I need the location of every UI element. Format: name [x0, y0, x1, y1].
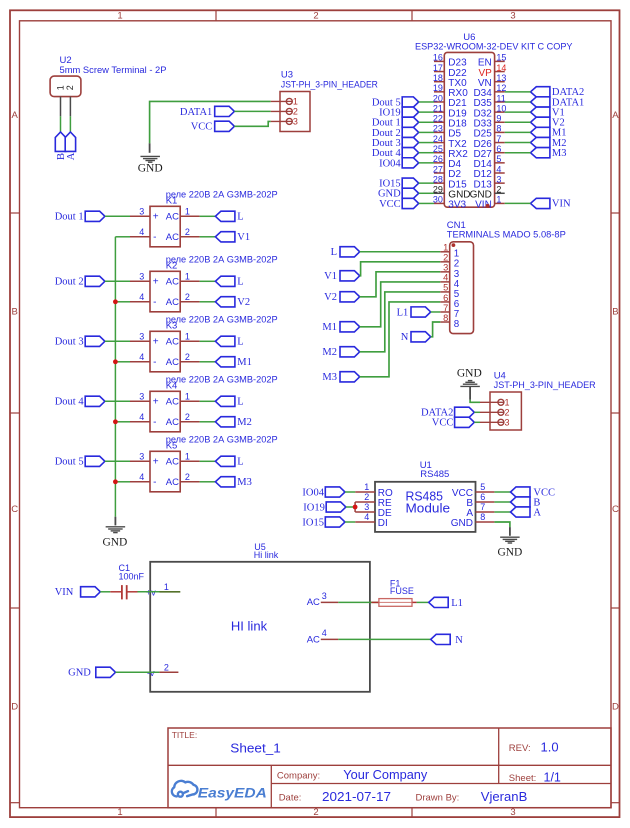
wire U2 pin2 to port A — [69, 116, 71, 132]
svg-text:VCC: VCC — [379, 199, 401, 210]
svg-text:3: 3 — [322, 591, 327, 601]
svg-text:1: 1 — [505, 398, 510, 408]
svg-text:M2: M2 — [322, 347, 337, 358]
svg-text:Company:: Company: — [277, 771, 320, 782]
wire U6 pin 6 to M3 — [505, 152, 531, 154]
netport DATA1 (U6 pin 11) — [531, 97, 550, 107]
netport VCC (U6 pin 30) — [402, 198, 419, 208]
svg-text:C: C — [11, 504, 18, 515]
title block — [168, 728, 611, 808]
U6 pin 15 EN — [495, 60, 505, 62]
svg-text:Sheet_1: Sheet_1 — [230, 741, 280, 756]
U6 pin 29 GND — [434, 192, 444, 194]
svg-text:Dout 2: Dout 2 — [55, 277, 84, 288]
svg-text:AC: AC — [166, 477, 179, 488]
U6 pin 25 RX2 — [434, 152, 444, 154]
svg-text:IO04: IO04 — [302, 487, 324, 498]
svg-text:K3: K3 — [166, 321, 178, 332]
svg-text:21: 21 — [433, 103, 443, 113]
wire Dout 3 to K3 pin 3 — [105, 340, 130, 342]
netport V1 (U6 pin 10) — [531, 107, 550, 117]
svg-text:AC: AC — [166, 457, 179, 468]
wire GND to U5 pin2 — [116, 671, 160, 673]
svg-text:11: 11 — [496, 93, 505, 103]
wire K5 pin 2 to M3 — [200, 481, 216, 483]
CN1 pin 1 — [440, 251, 449, 253]
svg-text:Your Company: Your Company — [343, 768, 428, 782]
wire GND to U4 pin1 — [470, 400, 480, 403]
svg-text:A: A — [612, 110, 619, 121]
K4 pin 2 — [180, 421, 199, 423]
svg-text:IO19: IO19 — [303, 502, 325, 513]
svg-text:AC: AC — [307, 634, 320, 645]
svg-text:3: 3 — [139, 392, 144, 402]
K3 pin 4 — [130, 361, 150, 363]
svg-text:AC: AC — [166, 232, 179, 243]
K1 pin 1 — [180, 215, 199, 217]
svg-text:15: 15 — [496, 53, 506, 63]
svg-text:A: A — [66, 152, 77, 160]
svg-text:23: 23 — [433, 124, 443, 134]
wire IO04 to U1 pin1 — [345, 491, 355, 493]
netport Dout 3 (K3) — [85, 336, 105, 346]
svg-text:5: 5 — [480, 482, 485, 492]
wire U1 pin8 to GND — [494, 522, 510, 527]
U6 pin 8 D25 — [495, 131, 505, 133]
netport L (K2 pin 1) — [215, 276, 235, 286]
svg-text:29: 29 — [433, 185, 443, 195]
netport L (CN1 pin 1) — [340, 247, 360, 257]
svg-text:K1: K1 — [166, 196, 178, 207]
junction relay bus at pin 4 — [113, 299, 118, 304]
U1 pin 7 A — [476, 511, 495, 513]
svg-text:C: C — [612, 504, 619, 515]
wire L1 to CN1 pin 7 — [431, 311, 441, 313]
wire U6 pin 1 to VIN — [505, 202, 531, 204]
svg-text:1: 1 — [117, 807, 122, 818]
U6 pin 1 VIN — [495, 202, 505, 204]
svg-text:2: 2 — [313, 807, 318, 818]
svg-text:HI link: HI link — [231, 620, 268, 634]
svg-text:JST-PH_3-PIN_HEADER: JST-PH_3-PIN_HEADER — [281, 79, 378, 89]
U6 pin 30 3V3 — [434, 202, 444, 204]
wire relay GND bus — [114, 237, 116, 517]
svg-text:8: 8 — [480, 512, 485, 522]
U6 pin1 marker dot — [486, 204, 490, 208]
svg-text:30: 30 — [433, 195, 443, 205]
K3 pin 1 — [180, 340, 199, 342]
netport V2 (CN1 pin 3) — [340, 292, 360, 302]
svg-text:ESP32-WROOM-32-DEV KIT C COPY: ESP32-WROOM-32-DEV KIT C COPY — [415, 42, 573, 53]
svg-text:+: + — [153, 397, 159, 408]
junction relay bus at pin 4 — [113, 479, 118, 484]
svg-text:3: 3 — [443, 263, 448, 273]
netport V2 (U6 pin 9) — [531, 117, 550, 127]
svg-text:RS485: RS485 — [420, 469, 449, 480]
U6 pin 14 VP — [495, 71, 505, 73]
svg-text:100nF: 100nF — [119, 571, 145, 581]
U1 pin 8 GND — [476, 521, 495, 523]
svg-text:6: 6 — [496, 144, 501, 154]
svg-text:AC: AC — [166, 397, 179, 408]
wire U6 pin 9 to V2 — [505, 121, 531, 123]
wire K4 pin 2 to M2 — [200, 421, 216, 423]
U6 pin 6 D27 — [495, 152, 505, 154]
svg-text:VIN: VIN — [55, 587, 74, 598]
svg-text:VjeranB: VjeranB — [481, 790, 528, 804]
svg-text:3: 3 — [505, 418, 510, 428]
svg-text:1.0: 1.0 — [541, 740, 559, 755]
svg-text:19: 19 — [433, 83, 443, 93]
svg-text:реле 220В 2А G3MB-202P: реле 220В 2А G3MB-202P — [166, 314, 278, 325]
svg-text:L: L — [237, 277, 243, 288]
netport V1 (CN1 pin 2) — [340, 271, 360, 281]
netport Dout 1 (K1) — [85, 211, 105, 221]
svg-text:DI: DI — [378, 518, 388, 529]
wire N to CN1 pin 8 — [431, 322, 441, 337]
wire DATA1 to U3 pin2 — [234, 110, 270, 112]
netport VCC (U1 pin 5) — [511, 487, 531, 497]
svg-text:1: 1 — [185, 392, 190, 402]
svg-text:4: 4 — [139, 227, 144, 237]
svg-text:1: 1 — [185, 272, 190, 282]
svg-text:1: 1 — [443, 243, 448, 253]
svg-text:A: A — [12, 110, 19, 121]
svg-text:1: 1 — [185, 332, 190, 342]
U3 pin 3 — [271, 120, 293, 122]
netport IO04 (U6 pin 26) — [402, 158, 419, 168]
svg-text:13: 13 — [496, 73, 506, 83]
wire VCC to U4 pin3 — [474, 421, 480, 423]
svg-text:GND: GND — [497, 547, 522, 559]
svg-text:Dout 1: Dout 1 — [55, 212, 84, 223]
U1 pin 3 DE — [355, 511, 375, 513]
U4 pin 2 — [480, 411, 504, 413]
svg-text:-: - — [153, 357, 156, 368]
svg-text:Dout 4: Dout 4 — [55, 397, 85, 408]
wire U6 pin 11 to DATA1 — [505, 101, 531, 103]
K4 pin 3 — [130, 400, 150, 402]
svg-text:L: L — [237, 457, 243, 468]
svg-text:6: 6 — [443, 293, 448, 303]
svg-text:Dout 3: Dout 3 — [55, 337, 84, 348]
netport Dout 1 (U6 pin 22) — [402, 117, 419, 127]
svg-text:1/1: 1/1 — [544, 770, 561, 784]
wire Dout 3 to U6 pin 24 — [419, 142, 434, 144]
netport DATA2 (U6 pin 12) — [531, 87, 550, 97]
svg-text:AC: AC — [166, 357, 179, 368]
svg-text:M1: M1 — [237, 357, 252, 368]
svg-text:3: 3 — [139, 332, 144, 342]
svg-text:24: 24 — [433, 134, 443, 144]
netport Dout 5 (K5) — [85, 456, 105, 466]
U6 pin 20 D21 — [434, 101, 444, 103]
netport DATA1 — [215, 106, 235, 116]
svg-text:3V3: 3V3 — [448, 200, 466, 211]
svg-text:3: 3 — [139, 272, 144, 282]
svg-text:14: 14 — [496, 63, 506, 73]
svg-text:Hi link: Hi link — [254, 550, 279, 560]
svg-text:DATA1: DATA1 — [180, 107, 212, 118]
U6 pin 10 D32 — [495, 111, 505, 113]
ground GND (U1) — [509, 527, 511, 536]
svg-text:L: L — [331, 247, 337, 258]
svg-text:+: + — [153, 337, 159, 348]
svg-text:3: 3 — [510, 807, 515, 818]
svg-text:1: 1 — [117, 11, 122, 22]
netport L (K5 pin 1) — [215, 456, 235, 466]
netport VCC (U3) — [215, 121, 235, 131]
svg-text:+: + — [153, 277, 159, 288]
svg-text:18: 18 — [433, 73, 443, 83]
wire Dout 4 to K4 pin 3 — [105, 400, 130, 402]
K3 pin 2 — [180, 361, 199, 363]
wire V1 to CN1 pin 2 — [360, 262, 441, 276]
svg-text:2: 2 — [185, 227, 190, 237]
K5 pin 3 — [130, 460, 150, 462]
wire K4 pin 1 to L — [200, 400, 216, 402]
svg-text:3: 3 — [496, 174, 501, 184]
svg-text:AC: AC — [166, 297, 179, 308]
netport VIN (U5) — [81, 587, 101, 597]
U1 pin 2 RE — [355, 501, 375, 503]
netport M3 (CN1 pin 6) — [340, 372, 360, 382]
svg-text:+: + — [153, 457, 159, 468]
svg-text:4: 4 — [364, 512, 369, 522]
K5 pin 1 — [180, 460, 199, 462]
U2 pin 1 lead — [60, 97, 62, 117]
svg-text:7: 7 — [496, 134, 501, 144]
wire K1 pin 4 to GND bus — [115, 236, 130, 238]
EasyEDA logo — [172, 781, 198, 797]
svg-text:AC: AC — [166, 337, 179, 348]
wire K5 pin 4 to GND bus — [115, 481, 130, 483]
svg-text:Sheet:: Sheet: — [509, 773, 536, 784]
netport VIN (U6 pin 1) — [531, 198, 550, 208]
svg-text:реле 220В 2А G3MB-202P: реле 220В 2А G3MB-202P — [166, 434, 278, 445]
svg-text:M2: M2 — [237, 417, 252, 428]
svg-text:AC: AC — [307, 597, 320, 608]
svg-text:IO04: IO04 — [379, 158, 401, 169]
svg-text:K5: K5 — [166, 441, 178, 452]
svg-text:TITLE:: TITLE: — [172, 730, 198, 740]
svg-text:L1: L1 — [397, 307, 409, 318]
svg-text:M3: M3 — [237, 477, 252, 488]
U6 pin 19 RX0 — [434, 91, 444, 93]
svg-text:K4: K4 — [166, 381, 178, 392]
U6 pin 17 D22 — [434, 71, 444, 73]
svg-text:3: 3 — [510, 11, 515, 22]
svg-text:2: 2 — [293, 107, 298, 117]
wire K2 pin 1 to L — [200, 280, 216, 282]
wire K5 pin 1 to L — [200, 460, 216, 462]
svg-text:GND: GND — [457, 368, 482, 380]
svg-text:1: 1 — [185, 207, 190, 217]
svg-text:2: 2 — [185, 292, 190, 302]
netport GND (U5) — [96, 667, 116, 677]
netport N (U5) — [431, 634, 451, 644]
svg-text:D: D — [11, 702, 18, 713]
svg-text:5mm Screw Terminal - 2P: 5mm Screw Terminal - 2P — [60, 65, 167, 76]
netport GND (U6 pin 29) — [402, 188, 419, 198]
svg-text:2: 2 — [185, 352, 190, 362]
svg-text:D: D — [612, 702, 619, 713]
netport V2 (K2 pin 2) — [215, 297, 235, 307]
K1 pin 2 — [180, 236, 199, 238]
svg-text:L: L — [237, 212, 243, 223]
U6 pin 9 D33 — [495, 121, 505, 123]
U6 pin 7 D26 — [495, 142, 505, 144]
svg-text:VIN: VIN — [552, 199, 571, 210]
wire U2 pin1 to port B — [60, 116, 62, 132]
wire IO04 to U6 pin 26 — [419, 162, 434, 164]
wire GND to U6 pin 29 — [419, 192, 434, 194]
svg-text:1: 1 — [293, 97, 298, 107]
svg-text:4: 4 — [139, 352, 144, 362]
wire DATA2 to U4 pin2 — [474, 411, 480, 413]
wire U5 pin3 to F1 — [338, 601, 379, 603]
K2 pin 3 — [130, 280, 150, 282]
netport Dout 2 (K2) — [85, 276, 105, 286]
svg-text:9: 9 — [496, 114, 501, 124]
netport Dout 3 (U6 pin 24) — [402, 137, 419, 147]
wire L to CN1 pin 1 — [360, 251, 441, 253]
wire C1 to U5 pin1 — [138, 591, 160, 593]
wire IO15 to U1 pin4 — [345, 521, 355, 523]
wire U1 pin 7 to A — [494, 511, 510, 513]
svg-text:EasyEDA: EasyEDA — [198, 786, 267, 801]
svg-text:3: 3 — [139, 207, 144, 217]
wire Dout 1 to U6 pin 22 — [419, 121, 434, 123]
svg-text:GND: GND — [68, 668, 91, 679]
wire U6 pin 8 to M1 — [505, 131, 531, 133]
U6 pin 12 D34 — [495, 91, 505, 93]
svg-text:IO15: IO15 — [302, 517, 324, 528]
netport M3 (U6 pin 6) — [531, 148, 550, 158]
wire V2 to CN1 pin 3 — [360, 272, 441, 297]
netport Dout 2 (U6 pin 23) — [402, 127, 419, 137]
CN1 pin 4 — [440, 281, 449, 283]
U1 pin 4 DI — [355, 521, 375, 523]
svg-text:Dout 5: Dout 5 — [55, 457, 84, 468]
svg-text:реле 220В 2А G3MB-202P: реле 220В 2А G3MB-202P — [166, 189, 278, 200]
K2 pin 1 — [180, 280, 199, 282]
svg-text:2: 2 — [496, 185, 501, 195]
ground GND (relay bus) — [114, 517, 116, 526]
svg-text:1: 1 — [185, 452, 190, 462]
svg-text:L: L — [237, 397, 243, 408]
netport M1 (CN1 pin 4) — [340, 322, 360, 332]
U6 pin 13 VN — [495, 81, 505, 83]
svg-text:+v: +v — [146, 588, 156, 598]
svg-text:17: 17 — [433, 63, 443, 73]
svg-text:GND: GND — [451, 518, 473, 529]
svg-text:5: 5 — [443, 283, 448, 293]
svg-text:8: 8 — [443, 313, 448, 323]
svg-text:AC: AC — [166, 212, 179, 223]
netport Dout 4 (K4) — [85, 396, 105, 406]
junction relay bus at pin 4 — [113, 359, 118, 364]
netport M1 (K3 pin 2) — [215, 357, 235, 367]
svg-text:V1: V1 — [237, 232, 250, 243]
U6 pin 3 D13 — [495, 182, 505, 184]
netport N (CN1 pin 8) — [411, 332, 431, 342]
netport IO15 (U1) — [325, 517, 345, 527]
svg-text:-: - — [153, 417, 156, 428]
wire K2 pin 4 to GND bus — [115, 301, 130, 303]
svg-text:8: 8 — [496, 124, 501, 134]
U2 pin 2 lead — [69, 97, 71, 117]
svg-text:JST-PH_3-PIN_HEADER: JST-PH_3-PIN_HEADER — [494, 380, 596, 390]
U6 pin 27 D2 — [434, 172, 444, 174]
wire Dout 2 to K2 pin 3 — [105, 280, 130, 282]
netport M2 (K4 pin 2) — [215, 417, 235, 427]
svg-text:4: 4 — [139, 412, 144, 422]
svg-text:N: N — [401, 332, 409, 343]
svg-text:V2: V2 — [237, 297, 250, 308]
svg-text:TERMINALS MADO 5.08-8P: TERMINALS MADO 5.08-8P — [447, 230, 566, 241]
U6 pin 28 D15 — [434, 182, 444, 184]
wire U1 pin 5 to VCC — [494, 491, 510, 493]
wire U5 pin4 to N — [338, 638, 430, 640]
svg-text:1: 1 — [364, 482, 369, 492]
netport M3 (K5 pin 2) — [215, 477, 235, 487]
junction relay bus at pin 4 — [113, 419, 118, 424]
K1 pin 3 — [130, 215, 150, 217]
netport IO19 (U1) — [326, 502, 346, 512]
junction IO19 — [353, 505, 358, 510]
svg-text:3: 3 — [364, 502, 369, 512]
svg-text:4: 4 — [322, 628, 327, 638]
svg-text:28: 28 — [433, 174, 443, 184]
svg-text:2: 2 — [65, 85, 75, 90]
K2 pin 2 — [180, 301, 199, 303]
wire M3 to CN1 pin 6 — [360, 302, 441, 377]
svg-text:B: B — [12, 307, 18, 318]
CN1 pin 7 — [440, 311, 449, 313]
svg-text:Date:: Date: — [279, 793, 302, 804]
svg-text:27: 27 — [433, 164, 443, 174]
U6 pin 5 D14 — [495, 162, 505, 164]
CN1 pin 1 marker dot — [452, 243, 456, 247]
svg-text:Drawn By:: Drawn By: — [416, 793, 460, 804]
netport L (K1 pin 1) — [215, 211, 235, 221]
wire U6 pin 12 to DATA2 — [505, 91, 531, 93]
svg-text:2021-07-17: 2021-07-17 — [322, 790, 391, 804]
CN1 pin 3 — [440, 271, 449, 273]
netport A — [65, 132, 75, 151]
svg-text:4: 4 — [496, 164, 501, 174]
CN1 pin 5 — [440, 291, 449, 293]
netport B (U1 pin 6) — [511, 497, 531, 507]
svg-text:2: 2 — [313, 11, 318, 22]
netport VCC (U4) — [455, 417, 475, 427]
svg-text:1: 1 — [56, 85, 66, 90]
CN1 pin 8 — [440, 321, 449, 323]
svg-text:реле 220В 2А G3MB-202P: реле 220В 2А G3MB-202P — [166, 254, 278, 265]
svg-text:22: 22 — [433, 114, 443, 124]
wire K3 pin 1 to L — [200, 340, 216, 342]
K5 pin 2 — [180, 481, 199, 483]
svg-text:2: 2 — [185, 472, 190, 482]
svg-text:-: - — [153, 232, 156, 243]
K4 pin 1 — [180, 400, 199, 402]
wire U3 pin1 to GND — [150, 101, 271, 143]
U6 pin 23 D5 — [434, 131, 444, 133]
netport Dout 4 (U6 pin 25) — [402, 148, 419, 158]
netport IO19 (U6 pin 21) — [402, 107, 419, 117]
wire K3 pin 4 to GND bus — [115, 361, 130, 363]
